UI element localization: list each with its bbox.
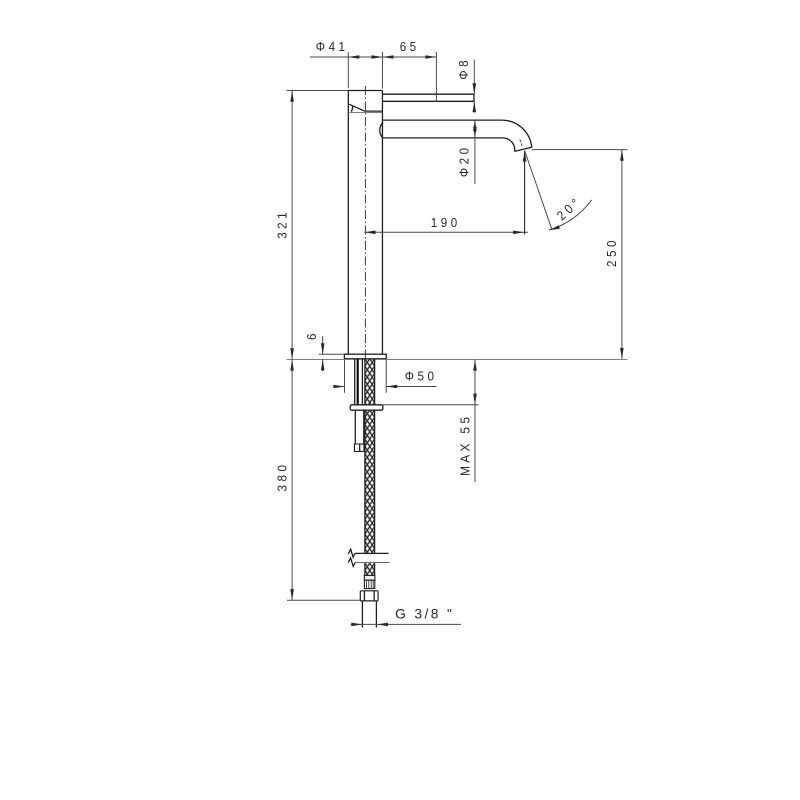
hose ferrule bbox=[364, 575, 375, 580]
dimension Phi50 bbox=[333, 360, 437, 393]
dimension 65 bbox=[382, 39, 436, 102]
stud below washer bbox=[355, 410, 364, 444]
spout outlet tick bbox=[520, 140, 522, 147]
dimension G 3/8 bbox=[351, 606, 461, 626]
dimension Phi41 bbox=[310, 39, 436, 88]
faucet body outline bbox=[348, 91, 382, 355]
handle lever bottom edge bbox=[349, 104, 382, 112]
dimension 321 bbox=[275, 91, 349, 360]
svg-text:6: 6 bbox=[304, 330, 319, 340]
svg-text:250: 250 bbox=[604, 237, 619, 267]
spout back joint arc bbox=[380, 122, 383, 138]
body centerline bbox=[364, 86, 366, 359]
dimension 190 bbox=[365, 151, 529, 235]
svg-text:20°: 20° bbox=[554, 194, 585, 224]
dimension 250 bbox=[532, 150, 628, 359]
angle 20 degrees bbox=[525, 151, 592, 232]
svg-text:Φ20: Φ20 bbox=[457, 144, 472, 177]
fixing stud bbox=[355, 359, 363, 405]
mounting washer nut bbox=[350, 405, 383, 410]
dimension Phi20 bbox=[457, 120, 477, 184]
svg-text:Φ41: Φ41 bbox=[316, 39, 349, 54]
svg-text:Φ8: Φ8 bbox=[457, 57, 472, 80]
braided hose bbox=[365, 359, 375, 576]
stud end nut bbox=[354, 444, 364, 451]
svg-text:321: 321 bbox=[275, 209, 290, 239]
handle lever rod bbox=[382, 94, 474, 101]
hose crimp ribs bbox=[364, 580, 374, 588]
svg-text:G 3/8 ": G 3/8 " bbox=[395, 606, 454, 621]
svg-text:65: 65 bbox=[400, 39, 420, 54]
G3/8 tube bbox=[362, 601, 376, 628]
svg-text:MAX 55: MAX 55 bbox=[458, 414, 473, 476]
base flange bbox=[344, 354, 386, 359]
deck surface line bbox=[287, 358, 628, 360]
dimension 6 bbox=[304, 330, 344, 371]
svg-text:380: 380 bbox=[275, 462, 290, 492]
dimension 380 bbox=[275, 360, 361, 601]
svg-text:Φ50: Φ50 bbox=[405, 369, 438, 384]
dimension Phi8 bbox=[457, 57, 477, 113]
hose break symbol bbox=[348, 549, 390, 566]
dimension MAX 55 bbox=[383, 359, 479, 482]
connector hex nut bbox=[360, 591, 378, 601]
svg-text:190: 190 bbox=[431, 215, 461, 230]
cartridge joint line bbox=[348, 112, 382, 114]
spout bbox=[382, 120, 531, 151]
